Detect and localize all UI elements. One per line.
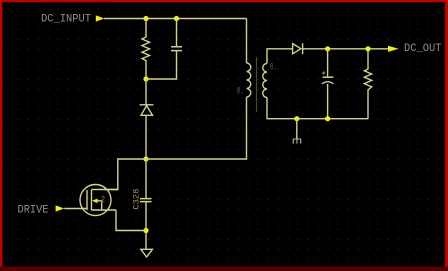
capacitor C3 top lead	[327, 49, 329, 77]
transistor Q1 channel bar	[91, 190, 93, 211]
svg-text:DRIVE: DRIVE	[18, 205, 49, 217]
svg-text:DC_INPUT: DC_INPUT	[41, 13, 91, 25]
wire output rail	[303, 48, 388, 50]
junction cap bottom	[325, 116, 330, 121]
wire drain node down to C328	[145, 159, 147, 198]
transistor Q1 gate bar	[86, 190, 88, 210]
capacitor C3 curved plate	[322, 82, 334, 84]
capacitor C3 top plate	[323, 76, 334, 78]
svg-text:C328: C328	[132, 189, 142, 210]
wire C328 bottom to ground	[145, 202, 147, 249]
node DC_OUT arrow	[388, 46, 399, 52]
wire drain node to primary bottom	[146, 97, 247, 159]
wire DRIVE to gate	[64, 208, 87, 210]
wire C2 bottom to node	[146, 51, 177, 79]
junction drain node	[143, 156, 148, 161]
wire top rail from DC_INPUT arrow to primary	[104, 18, 247, 20]
transformer primary coil	[247, 63, 251, 97]
capacitor C3 bottom lead	[327, 84, 329, 119]
capacitor C328	[140, 199, 152, 202]
transformer core	[256, 57, 258, 112]
capacitor C3 plus sign	[322, 71, 325, 74]
node DRIVE arrow	[56, 205, 65, 211]
wire drain node to mosfet drain	[104, 159, 146, 190]
svg-text:0.: 0.	[270, 62, 277, 74]
wire node to diode cathode	[145, 79, 147, 105]
diode D1 triangle	[141, 106, 153, 116]
transistor Q1 source bar	[92, 209, 117, 211]
diode D2 cathode bar	[302, 43, 304, 54]
junction output res top	[365, 46, 370, 51]
node DC_INPUT arrow	[96, 15, 105, 21]
capacitor C2	[171, 47, 182, 51]
border right	[445, 0, 448, 271]
svg-text:0.: 0.	[237, 85, 244, 97]
border bottom	[0, 267, 448, 271]
ground bar and ticks	[293, 139, 301, 144]
border left	[0, 0, 2, 271]
junction ground tap	[294, 116, 299, 121]
wire output bottom rail	[267, 98, 368, 119]
junction at C2 top	[174, 16, 179, 21]
junction output cap top	[325, 46, 330, 51]
transistor Q1 circle	[80, 185, 111, 216]
wire diode anode to drain node	[145, 115, 147, 159]
transistor Q1 bulk wire	[98, 201, 102, 210]
resistor R1	[142, 19, 150, 80]
junction source node	[143, 228, 148, 233]
transistor Q1 drain bar	[92, 189, 118, 191]
ground triangle	[141, 249, 153, 257]
svg-text:DC_OUT: DC_OUT	[404, 43, 442, 55]
ground stem	[296, 119, 298, 139]
diode D2 triangle	[293, 44, 301, 54]
wire secondary top to diode	[267, 49, 293, 64]
wire source node to mosfet source	[116, 210, 146, 231]
svg-text:2: 2	[101, 195, 106, 204]
transformer secondary coil	[263, 64, 267, 98]
border top	[0, 0, 448, 2]
diode D1 cathode bar	[140, 104, 154, 106]
capacitor C2 top lead	[176, 19, 178, 47]
transistor Q1 bulk arrow	[92, 199, 98, 204]
wire primary top lead	[246, 19, 248, 64]
junction at R1 top	[143, 16, 148, 21]
junction snubber node	[143, 76, 148, 81]
resistor R2	[364, 49, 371, 119]
